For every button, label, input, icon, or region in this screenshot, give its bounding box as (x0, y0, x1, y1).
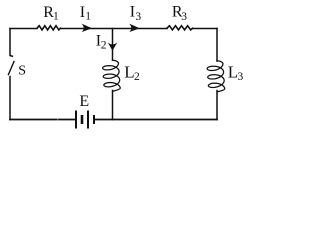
svg-text:3: 3 (135, 11, 141, 23)
svg-text:2: 2 (101, 40, 107, 52)
svg-text:E: E (79, 93, 89, 110)
svg-text:S: S (18, 64, 26, 79)
svg-text:I: I (130, 4, 135, 21)
svg-text:1: 1 (53, 11, 59, 23)
svg-text:3: 3 (181, 11, 187, 23)
svg-text:2: 2 (134, 71, 140, 83)
svg-text:3: 3 (238, 71, 244, 83)
svg-text:1: 1 (85, 11, 91, 23)
